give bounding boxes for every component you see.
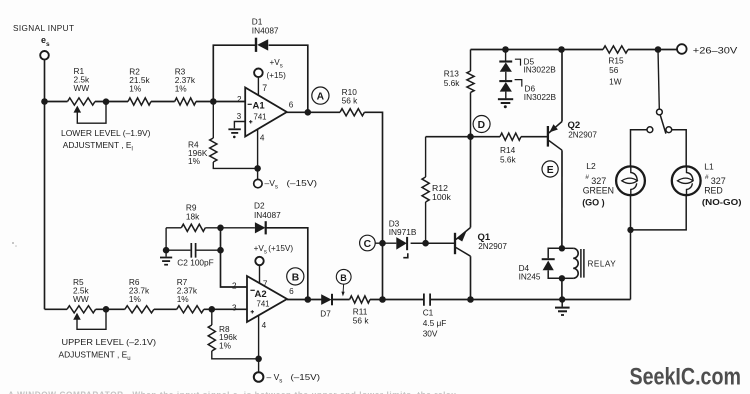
svg-text:C2 100pF: C2 100pF — [177, 257, 213, 267]
label L2 — [582, 161, 614, 207]
label A1 pin3 — [237, 112, 242, 121]
op-amp A1 741 — [245, 88, 287, 137]
node E circle — [542, 161, 558, 177]
label A2 pin4 — [262, 321, 267, 330]
node A2 output junction — [305, 296, 312, 303]
svg-text:IN4087: IN4087 — [252, 26, 279, 36]
label A2 -Vs — [267, 372, 321, 385]
svg-text:6: 6 — [289, 287, 294, 296]
label A2 741 — [257, 299, 270, 308]
node D junction — [467, 133, 474, 140]
label L1 — [702, 162, 742, 208]
wire input bus to R5 — [45, 308, 68, 310]
relay coil K1 — [562, 248, 584, 278]
label R10 value — [342, 87, 359, 105]
label +26-30V — [693, 45, 738, 56]
terminal A2 -Vs — [254, 372, 264, 382]
svg-text:1%: 1% — [188, 156, 201, 166]
svg-text:(NO-GO): (NO-GO) — [702, 197, 742, 207]
label A2 pin6 — [289, 287, 294, 296]
svg-text:GREEN: GREEN — [583, 186, 614, 196]
svg-text:5.6k: 5.6k — [444, 78, 461, 88]
diode D5 — [499, 50, 512, 72]
node D circle — [473, 116, 490, 133]
resistor R2 — [128, 98, 151, 105]
svg-text:1%: 1% — [129, 83, 142, 93]
wire L2 bottom — [630, 195, 632, 299]
capacitor C1 — [424, 294, 430, 306]
wire A1 pin4 — [257, 129, 259, 179]
wire rail to switch — [658, 50, 659, 110]
svg-text:RELAY: RELAY — [588, 259, 617, 268]
wire +V top rail — [471, 49, 604, 51]
svg-text:D7: D7 — [320, 309, 331, 318]
label LOWER LEVEL adjustment — [61, 128, 151, 153]
resistor R12 — [422, 137, 429, 244]
label D1 — [252, 17, 279, 36]
wire D2 to output — [266, 228, 308, 300]
label R5 value — [73, 277, 90, 304]
svg-text:IN971B: IN971B — [389, 227, 417, 237]
svg-text:(–15V): (–15V) — [291, 372, 321, 382]
node lamps junction — [627, 227, 633, 233]
wire R11 to C1 — [370, 299, 423, 301]
svg-text:1%: 1% — [129, 294, 142, 304]
switch S1 pivot — [657, 109, 663, 115]
ground at A1 pin3 — [228, 129, 240, 138]
svg-text:LOWER LEVEL (–1.9V): LOWER LEVEL (–1.9V) — [61, 128, 151, 138]
svg-text:C: C — [364, 239, 372, 250]
node R10/R11 junction — [379, 296, 386, 303]
pot R1 wiper arrow — [74, 102, 107, 123]
ground at C2 — [160, 250, 172, 265]
svg-text:1%: 1% — [177, 294, 190, 304]
label R9 value — [186, 203, 200, 222]
svg-text:1W: 1W — [609, 76, 622, 86]
svg-text:4.5 μF: 4.5 μF — [423, 318, 447, 328]
resistor R14 — [500, 133, 521, 140]
node D3/R12 junction — [422, 240, 429, 247]
node A2 pin4 junction — [255, 356, 262, 363]
label e_s — [41, 35, 50, 48]
svg-text:#: # — [585, 174, 589, 181]
wire Q1 emitter up — [470, 137, 472, 228]
A1 non-inverting mark — [249, 120, 252, 123]
label A1 — [253, 101, 266, 112]
label D2 — [254, 200, 281, 220]
svg-text:B: B — [340, 273, 347, 283]
wire A2 pin7 — [259, 265, 261, 283]
label Q1 — [478, 232, 508, 251]
node input/R1 junction — [41, 98, 48, 105]
svg-text:WW: WW — [73, 294, 89, 304]
resistor R7 — [177, 306, 204, 313]
label R13 value — [444, 69, 461, 88]
node C bus junction — [379, 240, 386, 247]
wire switch to L2 — [631, 130, 647, 167]
label R3 value — [175, 67, 196, 94]
wire R9 left down — [165, 228, 167, 250]
wire C1 to relay ground bus — [431, 299, 631, 301]
wire R6 to R7 — [154, 308, 177, 310]
svg-text:UPPER LEVEL (–2.1V): UPPER LEVEL (–2.1V) — [62, 337, 157, 347]
lamp L2 GREEN GO — [616, 166, 645, 195]
svg-text:E: E — [547, 165, 554, 176]
svg-text:A WINDOW COMPARATOR When the: A WINDOW COMPARATOR When the input signa… — [8, 391, 456, 394]
svg-text:(+15): (+15) — [267, 71, 287, 80]
wire node D rail — [426, 136, 500, 138]
svg-text:L1: L1 — [704, 162, 714, 172]
svg-text:RED: RED — [704, 185, 723, 195]
node relay top junction — [559, 245, 565, 251]
resistor R11 — [350, 296, 370, 303]
wire R15 to terminal — [628, 49, 677, 51]
svg-text:4: 4 — [262, 321, 267, 330]
wire input to R1 — [45, 101, 68, 103]
label D3 — [389, 218, 417, 236]
wire R3 to A1 pin2 — [196, 101, 245, 103]
node B-prime circle — [336, 269, 351, 284]
svg-text:D: D — [478, 120, 485, 131]
svg-text:IN3022B: IN3022B — [524, 92, 557, 102]
svg-text:3: 3 — [232, 303, 237, 312]
label SIGNAL INPUT — [13, 24, 74, 33]
wire R1 to R2 — [95, 101, 128, 103]
wire D3 to Q1 base — [411, 242, 454, 244]
svg-text:SIGNAL INPUT: SIGNAL INPUT — [13, 24, 74, 33]
label A1 pin6 — [289, 101, 294, 110]
node A1 output junction — [305, 109, 312, 116]
svg-text:Q2: Q2 — [568, 120, 581, 131]
wire R10 to C1 bus — [364, 112, 382, 299]
svg-text:56: 56 — [609, 65, 619, 75]
resistor R13 — [467, 50, 474, 137]
lamp L1 RED NO-GO — [672, 166, 701, 195]
watermark SeekIC.com — [630, 364, 742, 391]
wire D1 feedback left — [213, 45, 255, 101]
label D7 — [320, 309, 331, 318]
node relay bottom junction — [559, 275, 565, 281]
label A1 741 — [254, 113, 267, 122]
node Q1 collector junction — [467, 296, 474, 303]
label A2 pin7 — [263, 279, 268, 288]
svg-text:+26–30V: +26–30V — [693, 45, 738, 56]
resistor R10 — [340, 109, 364, 116]
svg-text:IN3022B: IN3022B — [524, 65, 557, 75]
diode D3 zener — [396, 237, 408, 258]
wire Q2 collector down — [561, 150, 563, 248]
label R15 value — [608, 55, 624, 86]
label D5 pointer — [515, 59, 521, 65]
wire R5 to R6 — [96, 308, 125, 310]
svg-text:5.6k: 5.6k — [500, 154, 517, 164]
svg-text:D4: D4 — [519, 264, 530, 273]
wire relay to ground bus — [561, 278, 563, 299]
wire D1 feedback right — [269, 45, 308, 112]
label A2 — [255, 289, 267, 300]
svg-text:2N2907: 2N2907 — [568, 130, 597, 139]
label R8 value — [219, 324, 238, 350]
node A1 pin4 junction — [254, 165, 261, 172]
svg-text:3: 3 — [237, 112, 242, 121]
svg-text:B: B — [292, 272, 299, 283]
terminal A1 -Vs — [254, 179, 262, 187]
svg-text:R15: R15 — [608, 55, 624, 65]
label A2 pin3 — [232, 303, 237, 312]
svg-text:18k: 18k — [186, 211, 200, 221]
node A circle — [312, 87, 329, 104]
node switch rail junction — [655, 46, 662, 53]
capacitor C2 — [166, 243, 220, 258]
diode D4 — [542, 248, 562, 278]
svg-text:4: 4 — [260, 134, 265, 143]
wire A1 pin7 — [257, 77, 259, 95]
A2 non-inverting mark — [251, 310, 254, 313]
svg-text:IN4087: IN4087 — [254, 210, 281, 220]
label A1 pin2 — [237, 95, 242, 104]
svg-text:(GO ): (GO ) — [582, 197, 605, 207]
diode D6 — [499, 72, 512, 92]
label C1 value — [423, 307, 447, 338]
node A2 pin3 junction — [209, 306, 216, 313]
svg-text:C1: C1 — [423, 307, 434, 317]
scan noise bottom — [8, 391, 456, 394]
wire Q1 collector down — [470, 256, 472, 299]
terminal SIGNAL INPUT e_s — [40, 51, 49, 60]
svg-text:(+15V): (+15V) — [268, 244, 293, 253]
svg-text:56 k: 56 k — [342, 95, 359, 105]
svg-text:IN245: IN245 — [519, 273, 541, 282]
wire A2 pin4 — [258, 315, 260, 372]
diode D1 — [256, 38, 268, 52]
resistor R3 — [175, 98, 196, 105]
wire R2 to R3 — [151, 101, 175, 103]
svg-text:7: 7 — [263, 279, 268, 288]
transistor Q2 2N2907 — [548, 122, 562, 151]
svg-text:6: 6 — [289, 101, 294, 110]
svg-text:30V: 30V — [423, 329, 438, 339]
node ground bus junction — [559, 296, 565, 302]
svg-text:2: 2 — [232, 281, 237, 290]
resistor R8 — [208, 309, 258, 359]
label A1 +Vs — [267, 58, 287, 80]
label A1 pin7 — [262, 83, 267, 93]
label UPPER LEVEL adjustment — [59, 337, 157, 362]
label R2 value — [129, 67, 150, 94]
wire L1 bottom — [631, 195, 687, 230]
node A1 pin2 junction — [210, 98, 217, 105]
wire Q2 emitter up — [561, 50, 563, 122]
terminal +26-30V — [677, 44, 687, 54]
svg-text:D2: D2 — [254, 200, 265, 210]
svg-text:1%: 1% — [219, 340, 232, 350]
pot R5 wiper arrow — [73, 309, 106, 329]
node C2 left junction — [163, 247, 170, 254]
svg-text:2: 2 — [237, 95, 242, 104]
resistor R6 — [125, 306, 154, 313]
switch S1 contact right — [666, 127, 672, 133]
svg-text:741: 741 — [254, 113, 267, 122]
label A1 -Vs — [265, 178, 318, 191]
label A2 +Vs — [254, 244, 294, 256]
svg-text:7: 7 — [262, 83, 267, 93]
label A2 pin2 — [232, 281, 237, 290]
label RELAY — [588, 259, 617, 268]
wire A1 pin3 stub — [234, 122, 245, 129]
node R5 wiper junction — [103, 306, 110, 313]
svg-text:741: 741 — [257, 299, 270, 308]
node R9/D2 pin2 junction — [217, 225, 224, 232]
label C2 value — [177, 257, 213, 267]
label D5 — [524, 57, 557, 75]
ground at D5/D6 — [498, 92, 513, 109]
resistor R5 — [67, 306, 96, 313]
node C2 right junction — [217, 247, 224, 254]
label R11 value — [353, 307, 370, 326]
terminal A2 +Vs — [255, 257, 263, 265]
svg-text:A1: A1 — [253, 101, 266, 112]
svg-text:SeekIC.com: SeekIC.com — [630, 364, 742, 391]
transistor Q1 2N2907 — [455, 228, 471, 257]
A1 inverting mark — [248, 103, 252, 105]
resistor R4 — [210, 102, 258, 169]
resistor R15 — [603, 46, 628, 53]
svg-text:#: # — [705, 174, 709, 181]
label R12 value — [432, 183, 451, 202]
svg-text:A: A — [317, 92, 325, 103]
node D5 rail junction — [502, 46, 509, 53]
svg-text:100k: 100k — [432, 192, 451, 202]
wire input bus vertical — [44, 60, 46, 310]
wire D7 to R11 — [332, 299, 350, 301]
wire switch to L1 — [672, 130, 686, 167]
diode D7 — [321, 294, 332, 306]
wire A1 output — [287, 111, 340, 113]
A2 inverting mark — [250, 289, 254, 291]
node C circle — [360, 235, 376, 251]
B-prime pointer arrow — [341, 284, 344, 296]
svg-text:L2: L2 — [586, 161, 596, 171]
resistor R9 feedback — [166, 224, 255, 231]
label D4 — [519, 264, 541, 282]
label R14 value — [500, 145, 517, 164]
diode D2 — [255, 221, 266, 234]
resistor R1 — [68, 98, 95, 105]
svg-text:A2: A2 — [255, 289, 267, 300]
ground at relay — [555, 300, 570, 316]
label D6 — [524, 83, 557, 102]
label D6 pointer — [515, 80, 522, 87]
terminal A1 +Vs — [254, 69, 263, 78]
label R6 value — [129, 277, 150, 304]
svg-text:WW: WW — [74, 83, 90, 93]
wire R7 to A2 pin3 — [204, 308, 247, 310]
label Q2 — [568, 120, 598, 139]
label A1 pin4 — [260, 134, 265, 143]
switch S1 blade — [660, 115, 666, 134]
wire C to D3 — [375, 242, 396, 244]
node R1 wiper junction — [103, 98, 110, 105]
node B circle — [287, 268, 304, 285]
label R1 value — [74, 66, 91, 93]
wire A2 output — [287, 299, 322, 301]
scan speck left — [12, 242, 17, 247]
node Q2 rail junction — [558, 46, 565, 53]
svg-text:1%: 1% — [175, 83, 188, 93]
wire R14 to Q2 base — [521, 136, 547, 138]
switch S1 contact left — [647, 127, 653, 133]
op-amp A2 741 — [247, 276, 287, 322]
wire A2 pin2 riser — [221, 228, 248, 287]
svg-text:56 k: 56 k — [353, 316, 370, 326]
svg-text:(–15V): (–15V) — [287, 178, 318, 188]
svg-text:2N2907: 2N2907 — [478, 242, 507, 251]
label R7 value — [177, 277, 198, 304]
label R4 value — [188, 140, 208, 166]
